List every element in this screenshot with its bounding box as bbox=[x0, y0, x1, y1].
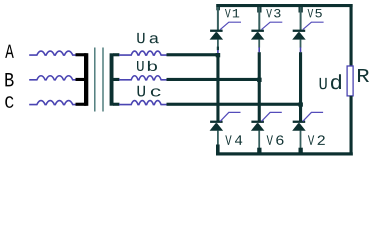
thyristor V2 bbox=[292, 121, 306, 131]
gate of V4 bbox=[220, 112, 240, 121]
wire V5 anode lead bbox=[300, 39, 302, 47]
label B (phase B) bbox=[5, 73, 13, 86]
thyristor V4 bbox=[210, 121, 224, 131]
wire top rail (+ bus) bbox=[216, 4, 352, 7]
node junction top rail / V3 leg bbox=[257, 7, 261, 13]
label V2 bbox=[308, 135, 325, 144]
gate of V6 bbox=[262, 112, 282, 121]
label V6 bbox=[267, 135, 284, 144]
thyristor V5 bbox=[292, 30, 306, 40]
thyristor V6 bbox=[251, 121, 265, 131]
gate of V1 bbox=[220, 22, 241, 29]
wire phase c to bridge node C bbox=[167, 103, 303, 106]
primary winding coil phase C bbox=[29, 101, 76, 105]
label V4 bbox=[225, 135, 242, 144]
wire V3 anode purple segment bbox=[258, 47, 260, 52]
wire V2 cathode lead down bbox=[300, 131, 302, 149]
label Uc bbox=[137, 86, 160, 97]
thyristor V3 bbox=[251, 30, 265, 40]
node junction bottom rail / V2 leg bbox=[299, 148, 303, 153]
wire leg 2 down to V6 bbox=[258, 52, 261, 121]
node junction phase c / leg 3 bbox=[298, 102, 303, 106]
label V5 bbox=[308, 9, 322, 17]
wire rail to V5 cathode bbox=[300, 7, 302, 30]
node junction top rail / V5 leg bbox=[299, 7, 303, 13]
wire secondary bus to coil c bbox=[113, 103, 119, 106]
label R bbox=[358, 69, 369, 82]
wire secondary bus to coil b bbox=[113, 78, 119, 81]
wire phase b to bridge node B bbox=[167, 78, 262, 81]
wire V1 anode purple segment bbox=[217, 50, 219, 53]
transformer core line 2 bbox=[102, 48, 103, 112]
wire leg 3 down to V2 bbox=[299, 52, 302, 121]
gate of V2 bbox=[303, 112, 323, 121]
gate of V3 bbox=[262, 22, 283, 29]
node junction bottom rail / V6 leg bbox=[257, 148, 261, 153]
secondary winding coil b bbox=[119, 76, 167, 80]
wire V6 cathode lead down bbox=[258, 131, 260, 149]
primary winding coil phase B bbox=[29, 76, 76, 80]
wire right rail upper (+ to load) bbox=[350, 4, 353, 66]
label C (phase C) bbox=[5, 96, 13, 108]
node junction phase b / leg 2 bbox=[257, 78, 262, 82]
wire bottom-left corner bbox=[216, 145, 220, 154]
wire V3 anode lead bbox=[258, 39, 260, 47]
wire phase B to primary bus bbox=[76, 78, 87, 81]
wire top-left corner stub bbox=[216, 4, 220, 10]
transformer core line 1 bbox=[94, 48, 95, 112]
wire secondary bus to coil a bbox=[113, 53, 119, 56]
node junction phase a / leg 1 bbox=[216, 53, 221, 57]
label V3 bbox=[266, 9, 280, 17]
gate of V5 bbox=[303, 22, 324, 29]
wire bottom rail (- bus) bbox=[216, 152, 353, 155]
label Ud (output voltage) bbox=[320, 74, 341, 89]
secondary winding coil a bbox=[119, 51, 167, 55]
thyristor V1 bbox=[210, 30, 224, 40]
wire phase C to primary bus bbox=[76, 103, 87, 106]
wire phase a to bridge node A bbox=[167, 53, 221, 56]
wire V5 anode purple segment bbox=[300, 47, 302, 52]
label V1 bbox=[225, 9, 239, 17]
wire rail to V1 cathode bbox=[217, 7, 219, 30]
wire phase A to primary bus bbox=[76, 53, 87, 56]
wire V4 cathode lead down bbox=[217, 131, 219, 146]
label Ub bbox=[137, 61, 157, 71]
label A (phase A) bbox=[5, 45, 14, 58]
secondary winding coil c bbox=[119, 101, 167, 105]
wire rail to V3 cathode bbox=[258, 7, 260, 30]
primary star bus bar bbox=[84, 53, 88, 106]
label Ua bbox=[137, 33, 158, 43]
wire V1 anode lead bbox=[217, 39, 219, 47]
secondary star bus bar bbox=[110, 53, 114, 105]
primary winding coil phase A bbox=[29, 51, 76, 55]
wire leg 1 down to V4 bbox=[216, 57, 219, 122]
wire right rail lower (load to - rail) bbox=[350, 96, 353, 156]
resistor R load bbox=[347, 66, 353, 96]
